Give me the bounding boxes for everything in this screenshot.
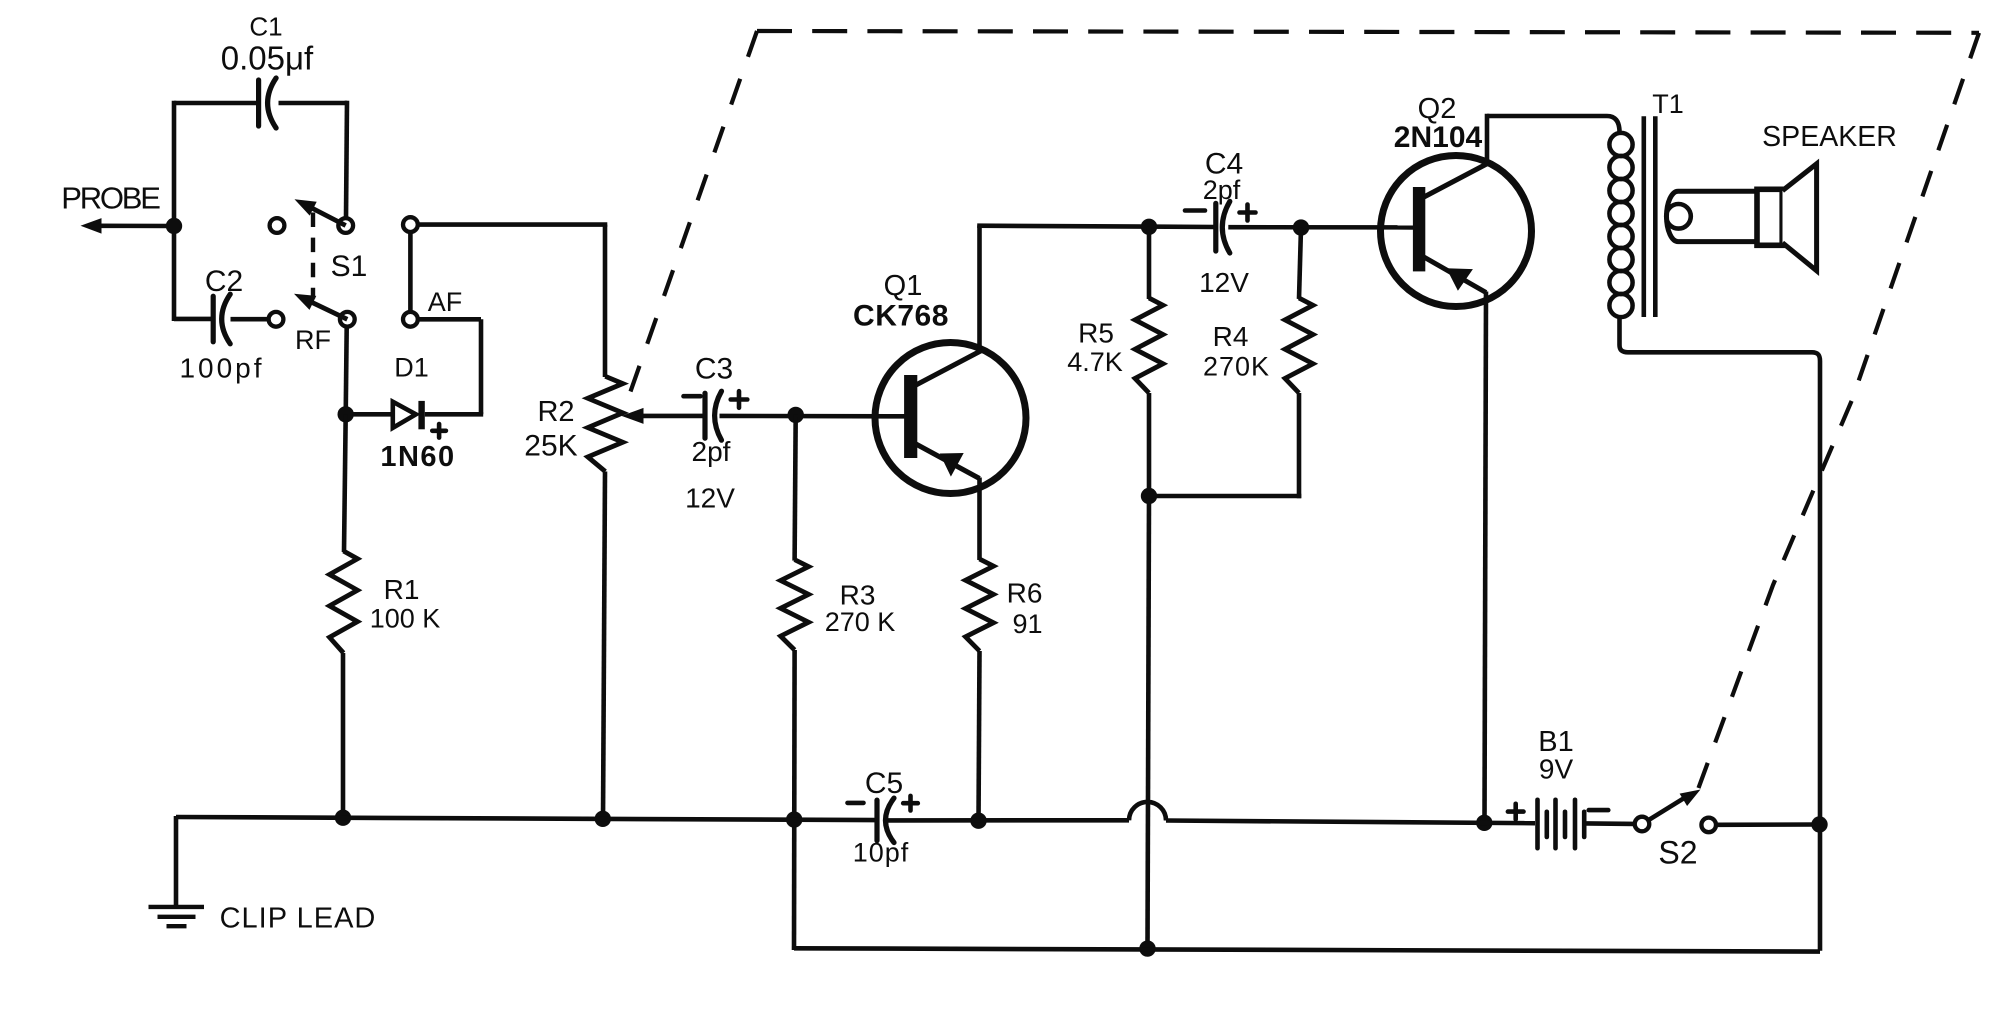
svg-text:R1: R1 xyxy=(384,574,420,605)
svg-text:R4: R4 xyxy=(1213,321,1249,352)
svg-text:RF: RF xyxy=(295,325,331,355)
svg-text:12V: 12V xyxy=(1199,267,1249,298)
svg-text:1N60: 1N60 xyxy=(380,441,455,473)
svg-text:S2: S2 xyxy=(1658,835,1697,871)
svg-text:91: 91 xyxy=(1012,609,1042,639)
svg-text:10pf: 10pf xyxy=(853,838,910,868)
svg-text:R6: R6 xyxy=(1007,578,1043,609)
svg-text:AF: AF xyxy=(428,287,463,317)
svg-text:SPEAKER: SPEAKER xyxy=(1762,121,1897,153)
svg-text:C5: C5 xyxy=(865,767,903,800)
svg-text:R3: R3 xyxy=(840,580,876,611)
svg-text:R5: R5 xyxy=(1078,318,1114,349)
svg-text:9V: 9V xyxy=(1539,753,1574,784)
svg-text:C1: C1 xyxy=(249,12,282,42)
svg-text:Q1: Q1 xyxy=(884,270,923,302)
svg-text:S1: S1 xyxy=(331,250,368,283)
svg-text:2pf: 2pf xyxy=(692,436,731,467)
svg-text:T1: T1 xyxy=(1652,89,1684,119)
svg-text:R2: R2 xyxy=(537,396,574,428)
svg-text:270 K: 270 K xyxy=(825,607,896,637)
svg-text:CK768: CK768 xyxy=(853,300,949,333)
svg-text:2pf: 2pf xyxy=(1203,175,1241,205)
svg-text:C3: C3 xyxy=(695,353,733,386)
svg-text:12V: 12V xyxy=(685,483,735,514)
svg-text:270K: 270K xyxy=(1203,352,1270,382)
svg-text:2N104: 2N104 xyxy=(1394,121,1483,154)
svg-text:100pf: 100pf xyxy=(179,353,264,384)
svg-text:CLIP LEAD: CLIP LEAD xyxy=(220,903,377,935)
svg-text:C2: C2 xyxy=(205,265,243,298)
svg-text:25K: 25K xyxy=(524,430,577,463)
svg-text:4.7K: 4.7K xyxy=(1067,347,1123,377)
svg-text:0.05μf: 0.05μf xyxy=(221,40,314,77)
svg-text:D1: D1 xyxy=(394,353,429,383)
svg-text:100 K: 100 K xyxy=(370,604,441,634)
svg-text:PROBE: PROBE xyxy=(61,181,160,216)
